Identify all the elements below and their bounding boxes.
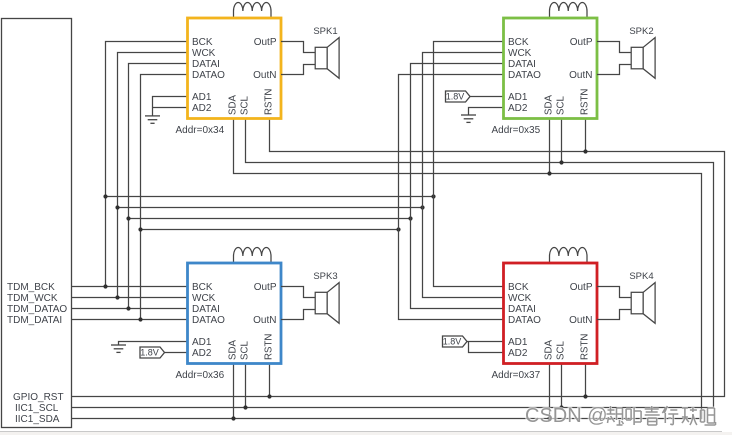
junction SDA/IIC1_SDA U2 tap [547, 171, 551, 175]
junction TDM_WCK/WCK mid-right [420, 205, 424, 209]
junction TDM_DATAI/DATAO mid-left [138, 227, 142, 231]
svg-text:SDA: SDA [544, 95, 555, 115]
wire net SDA/IIC1_SDA: U1 drop, top distribution, right riser, bottom bus to host [72, 119, 702, 419]
host controller box [2, 19, 72, 428]
wire net TDM_DATAI/DATAO: mid distribution line [141, 229, 399, 231]
power tag 1.8V U4 AD1/AD2 [443, 336, 468, 347]
junction TDM_WCK/WCK mid-left [115, 205, 119, 209]
wire net SDA/IIC1_SDA: U2 drop [549, 119, 551, 174]
junction TDM_BCK/BCK mid-left [103, 194, 107, 198]
amp U4 body (Addr=0x37) [504, 263, 598, 364]
svg-text:IIC1_SCL: IIC1_SCL [15, 403, 59, 414]
svg-text:DATAI: DATAI [192, 59, 220, 70]
junction RSTN/GPIO_RST U3 tap [267, 394, 271, 398]
wire U2 OutN to SPK2 [597, 65, 631, 75]
inductor on top of U4 [550, 248, 588, 263]
wire net TDM_BCK/BCK: right riser U2 pin to U4 pin [434, 42, 504, 287]
svg-text:OutN: OutN [253, 70, 276, 81]
junction TDM_WCK/WCK at TDM line [115, 295, 119, 299]
ground U2 AD2 [461, 115, 476, 122]
svg-text:SPK3: SPK3 [313, 271, 337, 282]
svg-text:WCK: WCK [192, 48, 216, 59]
svg-text:BCK: BCK [508, 282, 529, 293]
svg-text:SDA: SDA [228, 340, 239, 360]
svg-text:GPIO_RST: GPIO_RST [13, 392, 64, 403]
svg-text:TDM_BCK: TDM_BCK [7, 282, 55, 293]
wire U4 OutP to SPK4 [597, 287, 631, 298]
junction TDM_DATAI/DATAO at TDM line [138, 317, 142, 321]
wire U2 AD2 to ground [469, 108, 504, 116]
svg-text:AD2: AD2 [508, 103, 528, 114]
speaker SPK3 [315, 283, 339, 324]
svg-text:AD2: AD2 [192, 103, 212, 114]
junction RSTN/GPIO_RST U2 tap [583, 149, 587, 153]
svg-text:TDM_DATAI: TDM_DATAI [7, 315, 62, 326]
wire U4 AD2 branch to 1.8V [469, 342, 504, 353]
junction SCL/IIC1_SCL U3 tap [243, 405, 247, 409]
svg-text:SPK1: SPK1 [313, 26, 337, 37]
svg-text:AD1: AD1 [508, 92, 528, 103]
svg-text:DATAI: DATAI [192, 304, 220, 315]
svg-text:AD1: AD1 [192, 337, 212, 348]
junction RSTN/GPIO_RST U4 tap [583, 394, 587, 398]
svg-text:AD2: AD2 [192, 348, 212, 359]
power tag 1.8V U2 AD1 [446, 91, 471, 102]
svg-text:WCK: WCK [508, 293, 532, 304]
inductor on top of U2 [550, 3, 588, 18]
wire net TDM_BCK/BCK: branch up to U1 pin [106, 42, 188, 287]
inductor on top of U3 [234, 248, 272, 263]
svg-text:DATAO: DATAO [508, 315, 541, 326]
speaker SPK2 [631, 38, 655, 79]
svg-text:DATAO: DATAO [192, 70, 225, 81]
wire net RSTN/GPIO_RST: U1 drop, top distribution, right riser, bottom bus to host [72, 119, 725, 397]
amp U1 body (Addr=0x34) [188, 18, 282, 119]
speaker SPK4 [631, 283, 655, 324]
wire U1 OutN to SPK1 [281, 65, 315, 75]
junction SCL/IIC1_SCL U2 tap [559, 160, 563, 164]
junction TDM_BCK/BCK mid-right [431, 194, 435, 198]
svg-text:OutN: OutN [569, 70, 592, 81]
wire net RSTN/GPIO_RST: U3 drop [269, 364, 271, 397]
amp U2 body (Addr=0x35) [504, 18, 598, 119]
svg-text:BCK: BCK [192, 37, 213, 48]
svg-text:WCK: WCK [508, 48, 532, 59]
svg-text:1.8V: 1.8V [443, 337, 462, 347]
wire U3 AD1 to ground [119, 342, 188, 346]
wire net TDM_BCK/BCK: host to U3 pin [72, 286, 188, 288]
ground U3 AD1 [111, 345, 126, 352]
svg-text:TDM_DATAO: TDM_DATAO [7, 304, 67, 315]
wire net TDM_WCK/WCK: branch up to U1 pin [118, 53, 188, 298]
svg-text:AD1: AD1 [192, 92, 212, 103]
wire net TDM_BCK/BCK: mid distribution line [106, 196, 434, 198]
svg-text:DATAI: DATAI [508, 59, 536, 70]
ground U1 AD pins [145, 116, 160, 123]
wire U3 AD2 to 1.8V [165, 352, 188, 354]
power tag 1.8V U3 AD2 [140, 347, 165, 358]
wire net TDM_WCK/WCK: host to U3 pin [72, 297, 188, 299]
svg-text:TDM_WCK: TDM_WCK [7, 293, 58, 304]
svg-text:SCL: SCL [556, 96, 567, 115]
wire net RSTN/GPIO_RST: U2 drop [585, 119, 587, 152]
wire U2 AD1 to 1.8V [470, 96, 504, 98]
svg-text:Addr=0x36: Addr=0x36 [176, 370, 225, 381]
bottom frame line [0, 431, 722, 433]
junction SCL/IIC1_SCL U4 tap [559, 405, 563, 409]
junction TDM_DATAO/DATAI mid-right [408, 216, 412, 220]
wire U3 OutN to SPK3 [281, 310, 315, 320]
svg-text:OutP: OutP [570, 37, 593, 48]
svg-text:SCL: SCL [556, 341, 567, 360]
junction TDM_DATAI/DATAO mid-right [396, 227, 400, 231]
wire U1 AD1/AD2 to ground [153, 97, 188, 116]
wire net SCL/IIC1_SCL: U1 drop, top distribution, right riser, bottom bus to host [72, 119, 714, 408]
speaker SPK1 [315, 38, 339, 79]
wire net SCL/IIC1_SCL: U3 drop [245, 364, 247, 408]
svg-text:DATAO: DATAO [508, 70, 541, 81]
junction TDM_DATAO/DATAI mid-left [126, 216, 130, 220]
svg-text:SDA: SDA [544, 340, 555, 360]
svg-text:DATAI: DATAI [508, 304, 536, 315]
svg-text:OutN: OutN [569, 315, 592, 326]
svg-text:SPK4: SPK4 [629, 271, 653, 282]
wire U1 OutP to SPK1 [281, 42, 315, 53]
wire U4 AD1 to 1.8V [467, 341, 504, 343]
svg-text:OutN: OutN [253, 315, 276, 326]
svg-text:SCL: SCL [240, 341, 251, 360]
svg-text:BCK: BCK [508, 37, 529, 48]
svg-text:1.8V: 1.8V [140, 348, 159, 358]
wire net RSTN/GPIO_RST: U4 drop [585, 364, 587, 397]
svg-text:RSTN: RSTN [580, 89, 591, 115]
svg-text:OutP: OutP [570, 282, 593, 293]
wire net TDM_DATAI/DATAO: host to U3 pin [72, 319, 188, 321]
junction SDA/IIC1_SDA U4 tap [547, 416, 551, 420]
wire net TDM_DATAI/DATAO: branch up to U1 pin [141, 75, 188, 320]
svg-text:RSTN: RSTN [580, 334, 591, 360]
svg-text:BCK: BCK [192, 282, 213, 293]
svg-text:AD2: AD2 [508, 348, 528, 359]
svg-text:IIC1_SDA: IIC1_SDA [15, 414, 60, 425]
svg-text:OutP: OutP [254, 282, 277, 293]
junction TDM_BCK/BCK at TDM line [103, 284, 107, 288]
wire U2 OutP to SPK2 [597, 42, 631, 53]
wire U3 OutP to SPK3 [281, 287, 315, 298]
wire net TDM_DATAI/DATAO: right riser U2 pin to U4 pin [399, 75, 504, 320]
inductor on top of U1 [234, 3, 272, 18]
svg-text:OutP: OutP [254, 37, 277, 48]
svg-text:Addr=0x35: Addr=0x35 [492, 125, 541, 136]
wire net TDM_WCK/WCK: mid distribution line [118, 207, 423, 209]
wire net TDM_WCK/WCK: right riser U2 pin to U4 pin [423, 53, 504, 298]
wire net SCL/IIC1_SCL: U2 drop [561, 119, 563, 163]
svg-text:1.8V: 1.8V [446, 92, 465, 102]
svg-text:WCK: WCK [192, 293, 216, 304]
wire net SDA/IIC1_SDA: U3 drop [233, 364, 235, 419]
wire net TDM_DATAO/DATAI: mid distribution line [129, 218, 411, 220]
svg-text:CSDN @: CSDN @ [525, 405, 608, 427]
wire U4 OutN to SPK4 [597, 310, 631, 320]
wire net SDA/IIC1_SDA: U4 drop [549, 364, 551, 419]
svg-text:SDA: SDA [228, 95, 239, 115]
wire net TDM_DATAO/DATAI: branch up to U1 pin [129, 64, 188, 309]
amp U3 body (Addr=0x36) [188, 263, 282, 364]
svg-text:RSTN: RSTN [264, 89, 275, 115]
svg-text:DATAO: DATAO [192, 315, 225, 326]
svg-text:SCL: SCL [240, 96, 251, 115]
svg-text:AD1: AD1 [508, 337, 528, 348]
wire net TDM_DATAO/DATAI: host to U3 pin [72, 308, 188, 310]
wire net SCL/IIC1_SCL: U4 drop [561, 364, 563, 408]
svg-text:Addr=0x37: Addr=0x37 [492, 370, 541, 381]
svg-text:SPK2: SPK2 [629, 26, 653, 37]
wire net TDM_DATAO/DATAI: right riser U2 pin to U4 pin [411, 64, 504, 309]
watermark CSDN [525, 405, 716, 427]
junction SDA/IIC1_SDA U3 tap [231, 416, 235, 420]
svg-text:RSTN: RSTN [264, 334, 275, 360]
junction TDM_DATAO/DATAI at TDM line [126, 306, 130, 310]
svg-text:Addr=0x34: Addr=0x34 [176, 125, 225, 136]
